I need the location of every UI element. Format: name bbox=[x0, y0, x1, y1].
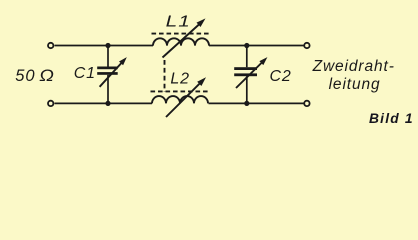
svg-text:50: 50 bbox=[15, 67, 35, 85]
svg-text:Bild 1: Bild 1 bbox=[369, 111, 414, 126]
wire top rail right segment bbox=[209, 45, 304, 47]
svg-text:C2: C2 bbox=[270, 68, 292, 85]
svg-text:Ω: Ω bbox=[39, 66, 54, 84]
svg-text:leitung: leitung bbox=[329, 76, 381, 93]
wire bottom rail right segment bbox=[209, 102, 304, 104]
wire top rail left segment bbox=[55, 45, 154, 47]
capacitor C2 bbox=[234, 46, 267, 104]
terminal top-right bbox=[304, 43, 309, 48]
svg-text:1: 1 bbox=[178, 12, 190, 30]
node junction C2 top bbox=[244, 43, 249, 48]
wire ganging dashed link L1-L2 bbox=[164, 60, 166, 92]
node junction C2 bottom bbox=[244, 101, 249, 106]
node junction C1 bottom bbox=[105, 101, 110, 106]
svg-text:Zweidraht-: Zweidraht- bbox=[312, 58, 395, 75]
terminal bottom-left bbox=[48, 101, 53, 106]
svg-text:L2: L2 bbox=[170, 71, 189, 88]
svg-text:C1: C1 bbox=[74, 65, 96, 82]
terminal top-left bbox=[48, 43, 53, 48]
inductor L2 bbox=[151, 77, 210, 117]
inductor L1 bbox=[152, 18, 211, 57]
node junction C1 top bbox=[105, 43, 110, 48]
wire bottom rail left segment bbox=[55, 102, 153, 104]
terminal bottom-right bbox=[304, 101, 309, 106]
capacitor C1 bbox=[97, 46, 127, 104]
svg-text:L: L bbox=[166, 12, 178, 30]
